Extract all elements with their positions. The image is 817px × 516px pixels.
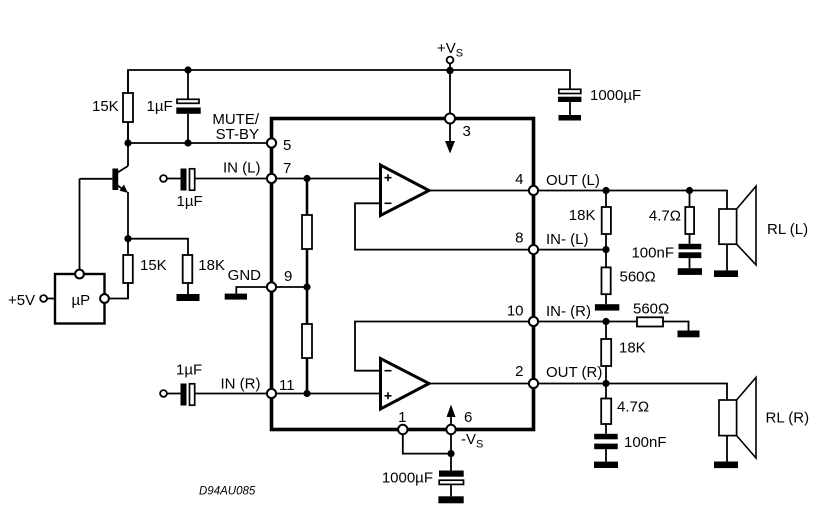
svg-text:8: 8	[515, 230, 523, 247]
capacitor C4 1uF input R	[181, 384, 187, 406]
svg-text:4.7Ω: 4.7Ω	[617, 399, 649, 416]
resistor R5 internal bottom	[302, 324, 312, 358]
svg-text:9: 9	[284, 268, 292, 285]
IC U1 box	[272, 119, 534, 430]
capacitor C5 100nF	[679, 244, 702, 250]
resistor R2 15K	[123, 255, 133, 283]
wire A1 out to pin 4	[429, 190, 529, 192]
wire IN- (R) row	[538, 321, 637, 323]
wire pin11 to opamp A2	[276, 393, 380, 395]
wire pin7 to opamp A1	[276, 178, 380, 180]
svg-text:D94AU085: D94AU085	[199, 486, 256, 498]
node emitter junction	[124, 235, 131, 242]
ground G1 under 18K	[177, 294, 200, 301]
svg-text:6: 6	[464, 409, 472, 426]
pin 11	[267, 389, 276, 398]
svg-text:15K: 15K	[92, 98, 119, 115]
pin 9	[267, 282, 276, 291]
svg-text:ST-BY: ST-BY	[216, 126, 259, 143]
IN (R) input terminal	[160, 390, 167, 397]
wire +Vs drop to pin 3	[449, 63, 451, 114]
capacitor C7 1000uF	[439, 471, 464, 477]
svg-text:1000µF: 1000µF	[590, 87, 641, 104]
GND symbol at pin 9	[236, 287, 267, 294]
op-amp A1	[381, 165, 430, 216]
pin 3	[445, 114, 455, 124]
resistor R9 560 ohm horizontal	[637, 317, 663, 326]
svg-text:560Ω: 560Ω	[620, 269, 656, 286]
svg-text:5: 5	[283, 137, 291, 154]
svg-text:15K: 15K	[140, 257, 167, 274]
svg-text:IN- (R): IN- (R)	[546, 303, 591, 320]
wire pin1/pin6 to supply cap	[403, 434, 451, 453]
pin 6	[446, 425, 455, 434]
svg-text:3: 3	[463, 123, 471, 140]
capacitor C3 1uF input L	[181, 169, 187, 191]
pin 10	[529, 317, 538, 326]
svg-text:RL (L): RL (L)	[767, 221, 808, 238]
+5V terminal	[40, 295, 47, 302]
svg-text:1µF: 1µF	[147, 98, 173, 115]
resistor R10 18K (R)	[605, 322, 607, 340]
pin 1	[398, 425, 407, 434]
svg-text:18K: 18K	[198, 257, 225, 274]
svg-text:18K: 18K	[569, 207, 596, 224]
pin uP right	[100, 294, 109, 303]
pin 7	[267, 174, 276, 183]
svg-text:1µF: 1µF	[177, 193, 203, 210]
svg-text:2: 2	[515, 363, 523, 380]
wire A1 feedback to pin 8	[355, 203, 529, 249]
resistor R8 4.7 ohm	[689, 191, 691, 208]
capacitor C2 1000uF top right	[559, 89, 581, 93]
svg-text:100nF: 100nF	[624, 434, 667, 451]
wire OUT (R) row	[538, 384, 727, 401]
resistor R3 18K	[183, 255, 193, 283]
node 15K/collector	[124, 139, 131, 146]
internal bias wire	[306, 179, 309, 394]
svg-text:11: 11	[279, 377, 295, 394]
svg-text:1: 1	[398, 409, 406, 426]
pin 6 arrow up	[450, 416, 452, 425]
ground G3	[595, 304, 619, 310]
IN (L) input terminal	[160, 175, 167, 182]
svg-text:4: 4	[515, 171, 523, 188]
node rail-Vs	[446, 67, 453, 74]
capacitor C1 1uF	[187, 70, 189, 99]
resistor R1 15K	[127, 70, 129, 93]
resistor R4 internal top	[302, 215, 312, 249]
wire A2 feedback to pin 10	[355, 322, 529, 371]
svg-text:100nF: 100nF	[631, 245, 674, 262]
resistor R7 560 ohm	[605, 250, 607, 268]
pin 4	[529, 186, 538, 195]
svg-text:4.7Ω: 4.7Ω	[649, 208, 681, 225]
wire top supply rail	[128, 70, 570, 143]
svg-text:IN (R): IN (R)	[221, 376, 261, 393]
transistor Q1	[80, 143, 129, 270]
wire A2 out to pin 2	[429, 383, 529, 385]
svg-text:7: 7	[283, 160, 291, 177]
wire pin9 to internal bias node	[276, 286, 307, 288]
+Vs terminal	[447, 57, 454, 64]
microcontroller U2 uP box	[55, 274, 105, 324]
wire OUT (L) row	[538, 191, 727, 210]
speaker RL (R)	[719, 400, 737, 436]
pin 3 arrow down	[449, 124, 451, 143]
svg-text:18K: 18K	[619, 340, 646, 357]
svg-text:IN (L): IN (L)	[223, 160, 261, 177]
pin uP top	[75, 270, 84, 279]
svg-text:1µF: 1µF	[176, 362, 202, 379]
svg-text:IN- (L): IN- (L)	[546, 231, 589, 248]
resistor R6 18K	[605, 191, 607, 208]
svg-text:1000µF: 1000µF	[382, 470, 433, 487]
node rail-1uF	[184, 66, 191, 73]
svg-text:OUT (R): OUT (R)	[546, 364, 602, 381]
svg-text:RL (R): RL (R)	[766, 410, 810, 427]
node 1uF/mute row	[184, 139, 191, 146]
svg-text:10: 10	[507, 303, 524, 320]
svg-text:µP: µP	[72, 292, 91, 309]
pin 8	[529, 245, 538, 254]
svg-text:OUT (L): OUT (L)	[546, 172, 600, 189]
svg-text:+5V: +5V	[8, 292, 35, 309]
capacitor C6 100nF (R)	[594, 434, 618, 440]
wire mute row to pin 5	[128, 142, 267, 144]
op-amp A2	[381, 359, 430, 410]
wire uP right to 15K bottom	[109, 283, 128, 299]
pin 2	[529, 379, 538, 388]
svg-text:GND: GND	[228, 267, 262, 284]
resistor R11 4.7 ohm (R)	[605, 384, 607, 399]
speaker RL (L)	[719, 209, 737, 244]
wire emitter node down to 15K R2	[127, 239, 129, 255]
pin 5	[267, 138, 276, 147]
wire IN- (L) row	[538, 249, 606, 251]
svg-text:560Ω: 560Ω	[633, 301, 669, 318]
wire emitter node to 18K	[128, 239, 188, 255]
